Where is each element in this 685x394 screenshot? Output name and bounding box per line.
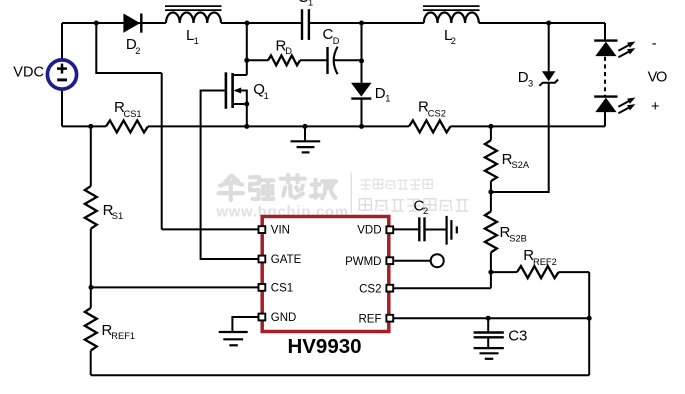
svg-text:D: D [375, 85, 386, 102]
svg-text:1: 1 [194, 36, 199, 46]
svg-text:GATE: GATE [271, 254, 302, 266]
svg-text:3: 3 [528, 79, 533, 89]
svg-text:PWMD: PWMD [345, 256, 381, 268]
svg-text:REF2: REF2 [533, 257, 557, 267]
svg-text:CS1: CS1 [124, 109, 142, 119]
svg-text:S1: S1 [112, 211, 123, 221]
svg-text:D: D [285, 46, 292, 56]
svg-text:CS1: CS1 [271, 283, 293, 295]
svg-text:CS2: CS2 [359, 283, 381, 295]
svg-text:GND: GND [271, 312, 297, 324]
svg-text:VDC: VDC [13, 65, 44, 81]
svg-text:S2B: S2B [509, 234, 527, 244]
svg-text:VDD: VDD [357, 225, 381, 237]
svg-text:VO: VO [648, 69, 667, 85]
svg-text:D: D [333, 36, 340, 46]
svg-text:C3: C3 [508, 328, 527, 345]
svg-text:1: 1 [264, 91, 269, 101]
svg-text:HV9930: HV9930 [287, 335, 361, 358]
svg-text:1: 1 [308, 0, 313, 8]
svg-text:CS2: CS2 [428, 109, 446, 119]
svg-text:2: 2 [451, 36, 456, 46]
svg-text:1: 1 [385, 94, 390, 104]
svg-text:REF: REF [359, 313, 382, 325]
svg-text:REF1: REF1 [111, 331, 135, 341]
svg-text:VIN: VIN [271, 225, 290, 237]
svg-text:2: 2 [135, 46, 140, 56]
svg-text:+: + [651, 99, 659, 115]
svg-text:-: - [652, 36, 657, 52]
svg-text:2: 2 [423, 206, 428, 216]
svg-text:S2A: S2A [512, 160, 530, 170]
